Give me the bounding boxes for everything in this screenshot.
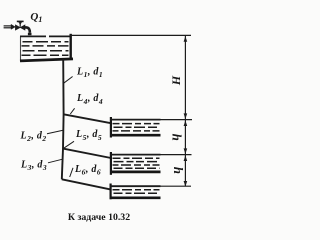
tank 1 left wall — [110, 117, 112, 138]
tank 3 — [110, 184, 191, 200]
branch pipe 6 — [62, 179, 111, 189]
inflow arrow — [4, 24, 16, 29]
svg-text:H: H — [170, 75, 184, 86]
svg-text:h: h — [171, 167, 186, 174]
tank 2 water dashes — [113, 158, 160, 168]
tank 2 — [110, 152, 192, 175]
tank 1 bottom — [110, 134, 161, 137]
valve (tap) — [15, 21, 25, 30]
tank 2 bottom — [110, 171, 161, 174]
tank 1 water dashes — [113, 124, 160, 131]
headwater level line — [70, 34, 191, 36]
tank 1 — [110, 117, 192, 138]
main pipe — [62, 59, 64, 179]
tank 2 water level line to dimension — [110, 154, 161, 156]
tank 1 water level line to dimension — [110, 119, 161, 121]
leader L5 — [64, 141, 74, 148]
dimension line vertical — [184, 35, 186, 186]
reservoir bottom — [20, 59, 73, 61]
branch pipe 5 — [63, 149, 111, 158]
svg-text:К задаче 10.32: К задаче 10.32 — [68, 212, 130, 223]
branch pipe 4 — [64, 114, 111, 123]
dimension arrowheads — [184, 36, 188, 186]
svg-text:h: h — [169, 134, 184, 141]
leader L6 — [70, 168, 73, 177]
tap spout elbow — [25, 27, 30, 32]
reservoir left wall — [20, 36, 22, 60]
leader L2 — [47, 130, 63, 134]
tank 2 left wall — [110, 152, 112, 175]
tank 3 left wall — [109, 184, 111, 200]
tap nozzle — [28, 33, 32, 35]
leader L1 — [63, 77, 73, 84]
tank 3 water dashes — [113, 190, 160, 193]
reservoir water surface — [20, 35, 70, 37]
tank 3 water level line to dimension — [110, 185, 161, 187]
tank 3 bottom — [110, 196, 161, 199]
leader L3 — [48, 159, 63, 163]
reservoir water dashes — [22, 42, 69, 56]
reservoir right wall — [69, 34, 71, 59]
leader L4 — [70, 108, 74, 114]
